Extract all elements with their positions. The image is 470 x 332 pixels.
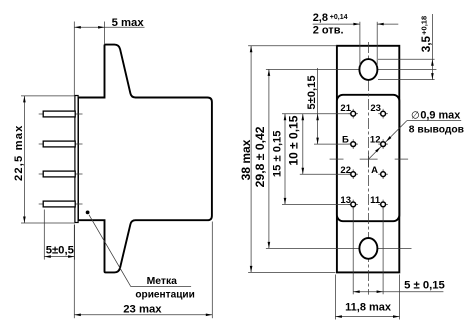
pin 12 [381,142,386,147]
svg-text:29,8 ± 0,42: 29,8 ± 0,42 [253,126,267,187]
dim "38 max" [248,45,337,47]
svg-text:А: А [371,165,378,176]
dim "2,8 +0,14 / 2 отв." [359,22,361,66]
svg-text:22: 22 [340,165,351,176]
orientation mark dot [86,211,90,215]
leader line to pin 12 [369,121,407,160]
dim "3,5 +0,18" [378,58,435,60]
dim "10 ± 0,15" [302,114,304,175]
dim "29,8 ± 0,42" [268,69,270,248]
dim "22,5 max" [21,95,74,97]
pin A [381,172,386,177]
column extension lines below [352,208,354,294]
svg-text:23: 23 [370,103,381,114]
pin 11 [381,202,386,207]
svg-text:38 max: 38 max [239,139,253,180]
connector body (rounded) [337,95,399,221]
edge center mark right [395,158,408,160]
svg-text:15 ± 0,15: 15 ± 0,15 [271,131,283,178]
svg-text:22,5 max: 22,5 max [13,125,25,181]
svg-text:2,8: 2,8 [313,12,328,24]
svg-text:ориентации: ориентации [135,290,194,301]
bottom hole [359,238,377,259]
svg-text:∅0,9 max: ∅0,9 max [411,109,460,121]
bottom hole centerline horizontal [266,247,412,249]
top hole centerline horizontal [266,68,437,70]
pin 22 [351,172,356,177]
svg-text:21: 21 [340,103,351,114]
pin 2 [43,141,75,147]
svg-text:2 отв.: 2 отв. [313,25,344,37]
pin 3 [43,171,75,177]
flange plate [75,96,78,223]
row extension lines [282,113,351,115]
pins: crosses + circles [348,109,388,209]
dim "11,8 max" [334,275,336,320]
center cross of body [360,158,378,160]
pin axis lines [39,113,83,115]
dim "15 ± 0,15" [284,114,286,205]
svg-text:Б: Б [342,134,349,145]
pin 4 [43,201,75,207]
svg-text:Метка: Метка [147,276,178,287]
svg-text:5 ± 0,15: 5 ± 0,15 [404,279,445,291]
mounting plate [337,46,399,273]
pin 1 [43,111,75,117]
svg-text:5±0,15: 5±0,15 [306,75,318,109]
pin 23 [381,111,386,116]
svg-text:+0,14: +0,14 [330,14,348,21]
leader "0,9 max 8 выводов" to pin 12 [407,120,461,122]
dim "5±0,5" [43,210,45,260]
svg-text:8 выводов: 8 выводов [409,124,464,135]
vertical centerline [367,42,369,295]
pin 13 [351,202,356,207]
svg-text:5±0,5: 5±0,5 [46,245,74,257]
svg-text:11,8 max: 11,8 max [345,302,392,314]
dim "23 max" [73,225,75,319]
top hole [359,59,377,80]
pin Б [351,142,356,147]
svg-text:10 ± 0,15: 10 ± 0,15 [287,115,301,165]
pin 21 [351,111,356,116]
connector body outline with top and bottom humps [78,45,212,273]
svg-text:5 max: 5 max [112,17,145,29]
svg-text:13: 13 [340,195,351,206]
dim "5 max" [73,22,75,96]
leader to orientation label [89,215,191,287]
svg-text:12: 12 [370,134,381,145]
dim "5 ± 0,15" bottom [353,291,443,293]
edge center mark left [330,158,344,160]
svg-text:11: 11 [370,195,381,206]
dim "5±0,15" vertical [317,68,319,144]
svg-text:23 max: 23 max [123,303,162,315]
